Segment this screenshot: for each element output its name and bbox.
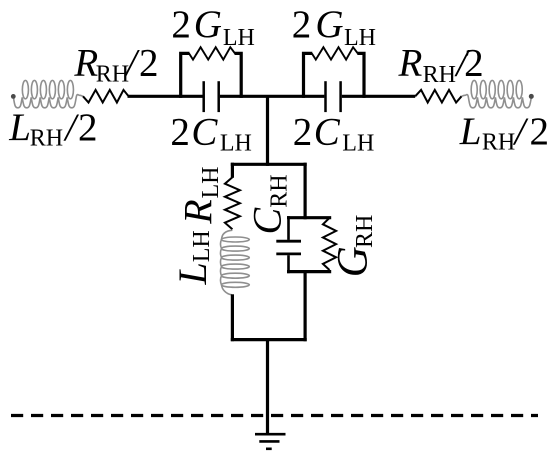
value label 2C_LH (right) xyxy=(293,110,375,156)
svg-text:C: C xyxy=(244,207,289,235)
resistor R_RH/2 (left) xyxy=(83,90,129,103)
svg-text:L: L xyxy=(8,106,31,149)
svg-text:RH: RH xyxy=(352,215,378,248)
capacitor 2C_LH (right) xyxy=(324,81,327,112)
wire (left block right riser) xyxy=(235,53,242,98)
svg-text:LH: LH xyxy=(198,167,224,199)
svg-text:R: R xyxy=(176,199,221,224)
svg-text:G: G xyxy=(330,246,377,277)
svg-text:2: 2 xyxy=(464,42,484,85)
ground plane (dashed line) xyxy=(11,414,538,417)
value label 2G_LH (left) xyxy=(171,3,255,51)
svg-text:LH: LH xyxy=(344,25,376,51)
wire (shunt branch top bar) xyxy=(231,163,307,166)
resistor 2G_LH (right) xyxy=(312,47,358,59)
ground xyxy=(255,433,286,436)
svg-text:RH: RH xyxy=(482,130,515,156)
wire (right shunt branch, lower) xyxy=(304,270,307,341)
value label 2C_LH (left) xyxy=(170,110,252,156)
value label R_RH/2 (left) xyxy=(73,41,158,87)
svg-text:RH: RH xyxy=(30,125,63,151)
value label L_LH xyxy=(170,230,215,285)
wire (right block right riser) xyxy=(357,53,364,98)
inductor L_RH/2 (left) xyxy=(11,80,83,107)
wire (shunt branch bottom bar) xyxy=(231,338,307,341)
wire (left shunt branch, upper) xyxy=(231,163,234,178)
wire (main line, left segment) xyxy=(128,95,203,98)
wire (left shunt branch, lower) xyxy=(231,294,234,341)
value label G_RH xyxy=(330,215,379,278)
svg-text:2: 2 xyxy=(530,110,550,153)
value label R_RH/2 (right) xyxy=(398,42,484,88)
wire (nested block bottom bar) xyxy=(287,270,331,273)
wire (left block left riser) xyxy=(181,53,190,98)
wire (main line, center segment) xyxy=(220,95,325,98)
svg-text:C: C xyxy=(314,111,341,154)
wire (ground lead) xyxy=(266,340,269,434)
wire (capacitor C_RH top lead) xyxy=(287,216,290,240)
svg-text:2: 2 xyxy=(139,41,159,84)
svg-text:2: 2 xyxy=(293,110,313,153)
value label R_LH xyxy=(176,167,224,225)
capacitor 2C_LH (left) xyxy=(202,81,205,112)
wire (main line, right segment) xyxy=(342,95,415,98)
svg-text:L: L xyxy=(459,110,482,153)
svg-text:RH: RH xyxy=(423,62,456,88)
inductor L_LH xyxy=(220,230,249,295)
resistor R_RH/2 (right) xyxy=(415,90,461,103)
svg-text:2: 2 xyxy=(171,3,191,46)
inductor L_RH/2 (right) xyxy=(462,80,534,107)
wire (right block left riser) xyxy=(304,53,313,98)
wire (right shunt branch, upper) xyxy=(304,163,307,220)
value label C_RH xyxy=(244,174,292,234)
svg-text:LH: LH xyxy=(189,230,215,262)
svg-text:LH: LH xyxy=(220,130,252,156)
svg-text:R: R xyxy=(398,42,423,85)
svg-text:C: C xyxy=(191,111,218,154)
wire (capacitor C_RH bottom lead) xyxy=(287,255,290,273)
wire (center node drop) xyxy=(266,96,269,166)
svg-text:LH: LH xyxy=(342,130,374,156)
capacitor C_RH xyxy=(276,240,301,243)
value label L_RH/2 (left) xyxy=(8,106,97,152)
svg-text:2: 2 xyxy=(78,106,98,149)
resistor G_RH xyxy=(323,218,336,270)
svg-text:RH: RH xyxy=(96,62,129,88)
value label 2G_LH (right) xyxy=(292,3,376,51)
svg-text:L: L xyxy=(170,262,215,285)
svg-text:RH: RH xyxy=(267,174,293,207)
value label L_RH/2 (right) xyxy=(459,110,549,156)
svg-text:G: G xyxy=(315,3,343,46)
svg-text:R: R xyxy=(73,41,98,84)
svg-text:LH: LH xyxy=(223,25,255,51)
resistor R_LH xyxy=(225,177,240,229)
resistor 2G_LH (left) xyxy=(189,47,235,59)
svg-text:2: 2 xyxy=(170,110,190,153)
wire (nested block top bar) xyxy=(287,216,331,219)
svg-text:G: G xyxy=(194,3,222,46)
svg-text:2: 2 xyxy=(292,3,312,46)
